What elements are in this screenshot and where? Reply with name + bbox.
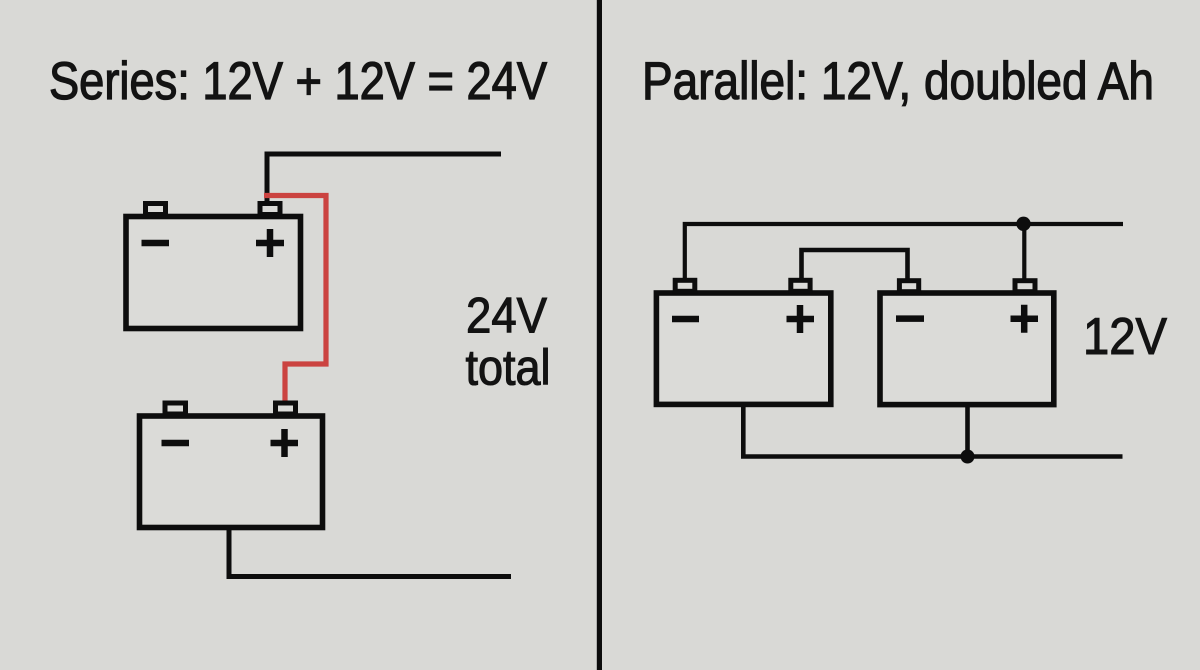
svg-text:12V: 12V — [1083, 308, 1167, 366]
battery B2 body — [140, 416, 323, 528]
battery B3 plus sign — [787, 305, 815, 333]
wire from battery B2 bottom to lower right — [229, 530, 511, 577]
divider line between panels — [597, 0, 602, 670]
battery B4 minus sign — [896, 315, 924, 322]
svg-text:Series: 12V + 12V = 24V: Series: 12V + 12V = 24V — [49, 52, 548, 111]
battery B2 minus sign — [162, 440, 190, 447]
svg-text:total: total — [466, 340, 551, 396]
battery B4 positive terminal — [1015, 281, 1035, 292]
battery B3 body — [656, 293, 830, 404]
svg-text:24V: 24V — [466, 288, 548, 344]
junction dot on bottom bus — [961, 450, 975, 464]
battery B2 negative terminal — [165, 403, 186, 414]
wire from B4 bottom to bottom bus — [965, 407, 970, 457]
battery B1 body — [126, 217, 301, 329]
battery B4 negative terminal — [899, 281, 918, 292]
battery B3 positive terminal — [791, 280, 810, 291]
battery B4 body — [880, 293, 1054, 405]
battery B1 positive terminal — [260, 204, 280, 215]
junction dot on top bus — [1016, 217, 1030, 231]
wire from battery B1 positive terminal to top right — [267, 154, 501, 204]
battery B1 negative terminal — [146, 204, 166, 215]
top bus wire with corner down to B3 negative terminal — [685, 224, 1123, 278]
bridge wire from B3 positive to B4 negative — [802, 250, 908, 279]
battery B3 minus sign — [672, 316, 699, 323]
battery B2 plus sign — [271, 429, 299, 457]
battery B4 plus sign — [1011, 305, 1039, 333]
wire from bus down to B4 positive terminal — [1022, 224, 1026, 279]
battery B1 plus sign — [256, 229, 284, 257]
svg-text:Parallel: 12V, doubled Ah: Parallel: 12V, doubled Ah — [642, 52, 1154, 111]
battery B3 negative terminal — [675, 280, 695, 291]
red series jumper wire from B1 + to B2 + — [264, 196, 326, 403]
battery B1 minus sign — [142, 240, 170, 247]
bottom wire from B3 to bottom bus — [743, 407, 1122, 457]
battery B2 positive terminal — [276, 403, 296, 414]
